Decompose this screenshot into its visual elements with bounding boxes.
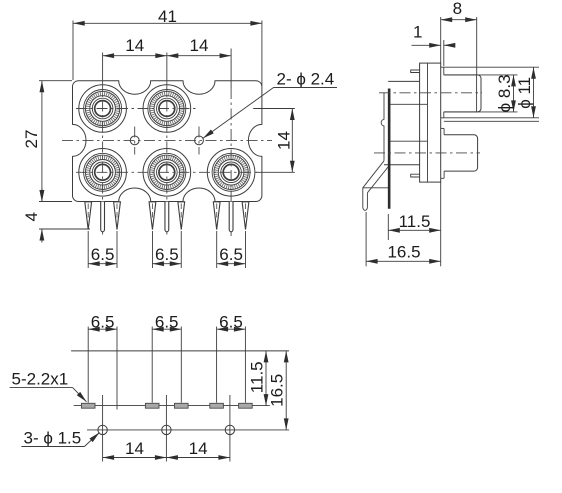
svg-text:11.5: 11.5 — [399, 212, 431, 231]
svg-text:14: 14 — [189, 439, 208, 458]
svg-text:27: 27 — [22, 130, 41, 149]
svg-text:14: 14 — [125, 36, 144, 55]
svg-text:6.5: 6.5 — [91, 245, 115, 264]
svg-text:5-2.2x1: 5-2.2x1 — [12, 369, 69, 388]
svg-text:6.5: 6.5 — [155, 245, 179, 264]
svg-text:14: 14 — [190, 36, 209, 55]
svg-text:16.5: 16.5 — [387, 242, 420, 261]
svg-text:14: 14 — [125, 439, 144, 458]
svg-text:16.5: 16.5 — [268, 374, 287, 407]
svg-text:6.5: 6.5 — [155, 312, 179, 331]
svg-text:8: 8 — [453, 0, 462, 18]
svg-text:2- ϕ 2.4: 2- ϕ 2.4 — [277, 70, 335, 89]
svg-text:1: 1 — [413, 23, 422, 42]
svg-text:14: 14 — [275, 131, 294, 150]
svg-text:41: 41 — [158, 7, 177, 26]
svg-text:ϕ 8.3: ϕ 8.3 — [495, 74, 514, 112]
svg-text:6.5: 6.5 — [219, 312, 243, 331]
svg-text:3- ϕ 1.5: 3- ϕ 1.5 — [24, 428, 82, 447]
svg-text:ϕ 11: ϕ 11 — [515, 77, 534, 109]
svg-text:4: 4 — [22, 212, 41, 221]
svg-text:6.5: 6.5 — [219, 245, 243, 264]
svg-text:6.5: 6.5 — [91, 312, 115, 331]
svg-text:11.5: 11.5 — [248, 361, 267, 393]
